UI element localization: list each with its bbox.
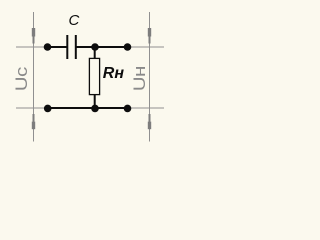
arrow top-left pointing down: [32, 28, 35, 44]
node dot bottom-middle: [91, 105, 99, 113]
svg-text:Rн: Rн: [103, 65, 125, 82]
svg-text:Uc: Uc: [12, 67, 31, 91]
resistor RH body: [89, 58, 99, 94]
arrow bottom-right pointing up: [148, 114, 151, 129]
right dimension extension top: [124, 46, 164, 48]
node dot bottom-left: [44, 105, 52, 113]
wire top rail right segment: [77, 46, 129, 48]
wire bottom rail: [47, 107, 128, 109]
node dot top-middle: [91, 43, 99, 51]
left dimension extension top: [16, 46, 50, 48]
capacitor label C: [69, 12, 80, 29]
right dimension extension bottom: [124, 107, 164, 109]
arrow top-right pointing down: [148, 28, 151, 44]
left dimension line for Uc: [33, 12, 35, 142]
resistor label Rн: [103, 65, 125, 82]
label Uн rotated: [130, 66, 149, 91]
node dot bottom-right: [124, 105, 132, 113]
node dot top-right: [124, 43, 132, 51]
svg-text:Uн: Uн: [130, 66, 149, 91]
wire top rail left segment: [47, 46, 67, 48]
resistor RH lead bottom: [94, 95, 96, 108]
resistor RH lead top: [94, 47, 96, 59]
capacitor C1 plates: [67, 35, 76, 59]
arrow bottom-left pointing up: [32, 114, 35, 129]
right dimension line for Uн: [149, 12, 151, 142]
left dimension extension bottom: [16, 107, 50, 109]
label Uc rotated: [12, 67, 31, 91]
svg-text:C: C: [69, 12, 80, 29]
node dot top-left: [44, 43, 52, 51]
